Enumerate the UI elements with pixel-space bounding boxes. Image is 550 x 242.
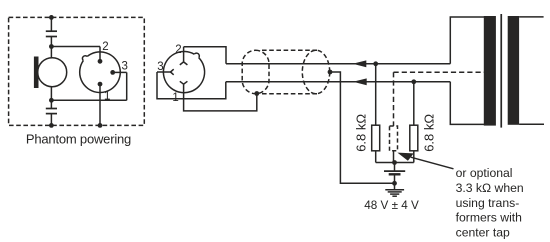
svg-text:or optional: or optional xyxy=(456,166,513,180)
XLR connector J1 (male, in enclosure) xyxy=(80,52,121,93)
svg-text:using trans-: using trans- xyxy=(456,196,520,210)
svg-text:formers with: formers with xyxy=(456,211,522,225)
XLR connector J2 (female, cable end) xyxy=(163,52,204,93)
cable shield left capsule (dashed) xyxy=(242,50,269,93)
J2 pin 3 (female contact fork) xyxy=(157,69,174,75)
wire secondary bottom output xyxy=(519,123,544,125)
cable shield top dashed line xyxy=(262,49,318,51)
transformer T1 primary winding xyxy=(484,16,496,126)
wire J2 pin 1 to cable shield xyxy=(184,93,257,111)
wire J2 pin 3 to lower conductor xyxy=(157,72,226,99)
wire C1 to node A xyxy=(50,37,52,47)
ground node junction dot xyxy=(392,181,397,186)
wire upper conductor to transformer primary top xyxy=(450,17,484,64)
upper conductor wire xyxy=(226,63,450,65)
svg-text:2: 2 xyxy=(102,41,108,53)
signal arrowhead lower conductor xyxy=(353,78,367,85)
J2 latch notch xyxy=(194,53,199,58)
wire bottom rail node B to pin3 riser xyxy=(51,99,126,101)
svg-text:3.3 kΩ when: 3.3 kΩ when xyxy=(456,181,524,195)
wire lower conductor to transformer primary bottom xyxy=(450,82,484,125)
center tap dashed wire (vertical) xyxy=(393,72,395,126)
arrow pointing to R3 xyxy=(397,153,413,161)
resistor R1 6.8k xyxy=(372,125,380,151)
transformer T1 secondary winding xyxy=(508,16,519,125)
supply rail xyxy=(376,162,414,164)
svg-text:3: 3 xyxy=(157,61,163,73)
wire node A to XLR J1 pin 2 (top rail) xyxy=(51,46,100,48)
node A (C1 bottom junction) xyxy=(49,44,54,49)
junction dot on enclosure bottom border (left) xyxy=(49,123,54,128)
wire battery to ground node xyxy=(394,174,396,183)
wire capsule bottom to node B xyxy=(50,87,52,101)
resistor R2 6.8k xyxy=(410,125,418,151)
signal arrowhead upper conductor xyxy=(353,60,367,67)
battery BT1 48V xyxy=(384,171,405,174)
cable shield right ellipse (dashed) xyxy=(302,50,329,94)
wire R2 top xyxy=(413,82,415,125)
J1 pin 3 xyxy=(110,70,126,100)
svg-text:1: 1 xyxy=(104,90,110,102)
J1 pin 2 xyxy=(98,47,103,64)
node B (capsule bottom junction) xyxy=(49,98,54,103)
svg-text:center tap: center tap xyxy=(456,226,510,240)
wire top border to C1 xyxy=(50,17,52,31)
wire to ground symbol xyxy=(394,183,396,189)
svg-text:48 V ± 4 V: 48 V ± 4 V xyxy=(364,199,419,212)
shield drain junction dot xyxy=(328,70,333,75)
svg-text:6.8 kΩ: 6.8 kΩ xyxy=(421,114,436,152)
wire secondary top output xyxy=(519,16,544,18)
wire node B to C2 xyxy=(50,100,52,108)
wire R1 bottom xyxy=(375,151,377,163)
J1 latch notch xyxy=(82,56,87,61)
junction dot lower conductor / R2 xyxy=(411,79,416,84)
wire rail to battery xyxy=(394,163,396,172)
wire R1 top xyxy=(375,64,377,125)
optional resistor R3 3.3k (dashed) xyxy=(390,126,398,151)
wire C2 to bottom border xyxy=(50,114,52,126)
note text: optional 3.3k xyxy=(456,166,524,240)
junction dot on enclosure top border xyxy=(49,15,54,20)
wire R2 bottom xyxy=(413,151,415,163)
center tap dashed wire (horizontal to transformer) xyxy=(394,71,485,73)
lower conductor wire xyxy=(226,81,450,83)
capacitor C1 (top coupling) xyxy=(46,31,57,36)
microphone capsule M1 xyxy=(34,57,67,89)
ground symbol xyxy=(385,190,404,197)
svg-text:6.8 kΩ: 6.8 kΩ xyxy=(354,114,369,152)
leader line to note xyxy=(411,157,454,169)
wire R3 bottom xyxy=(393,151,395,163)
junction dot supply rail xyxy=(392,160,397,165)
capacitor C2 (bottom) xyxy=(46,109,57,114)
transformer T1 core xyxy=(500,14,502,128)
shield drain wire to ground node xyxy=(330,72,395,183)
wire node A to capsule top xyxy=(50,47,52,59)
junction dot pin1 wire on shield xyxy=(254,91,259,96)
J1 pin 1 xyxy=(98,82,103,128)
phantom powering enclosure (dashed box) xyxy=(9,17,145,125)
svg-text:3: 3 xyxy=(122,60,128,72)
svg-text:1: 1 xyxy=(172,92,178,104)
cable shield bottom dashed line xyxy=(262,93,318,95)
svg-text:2: 2 xyxy=(175,44,181,56)
J2 pin 2 (female contact fork) xyxy=(180,47,188,65)
wire J2 pin 2 to upper conductor xyxy=(184,47,226,64)
svg-text:Phantom powering: Phantom powering xyxy=(26,131,131,146)
junction dot upper conductor / R1 xyxy=(373,61,378,66)
J2 pin 1 (female contact fork) xyxy=(180,81,188,92)
